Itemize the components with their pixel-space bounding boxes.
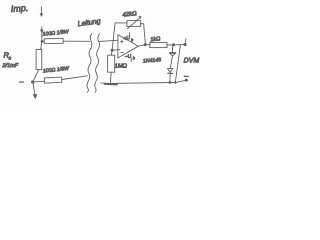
resistor R3 1kΩ [150, 43, 167, 48]
node E (diode junction) [172, 43, 175, 46]
-Ub supply stub [130, 58, 132, 62]
potentiometer wiper arrow [128, 17, 141, 28]
- terminal dot [185, 79, 188, 82]
arrowhead on input wire [40, 29, 44, 33]
ground arrow (down) [33, 82, 35, 95]
node B (bottom-left junction) [31, 80, 34, 83]
minus tick left [20, 81, 24, 83]
potentiometer P1 body [127, 21, 141, 27]
node G [174, 81, 176, 83]
op-amp U1 [118, 35, 138, 58]
node A (input junction) [41, 40, 44, 43]
wire to - input [112, 49, 120, 52]
wire bottom-left [34, 80, 45, 83]
wire cable to op-amp + input [99, 40, 118, 41]
op-amp + input mark [121, 40, 124, 43]
svg-text:1N4148: 1N4148 [143, 57, 162, 64]
+Ub supply stub [129, 33, 131, 37]
node D (output junction) [144, 43, 147, 46]
wire to cable bottom [62, 76, 88, 80]
wire op-amp output [138, 45, 145, 46]
resistor R1 100Ω 1/8W (series top) [44, 38, 63, 43]
svg-text:1kΩ: 1kΩ [150, 36, 160, 43]
node C (inverting node dot) [111, 49, 114, 52]
cable break squiggle left [87, 34, 92, 93]
wire to + terminal [167, 43, 184, 46]
svg-text:−U: −U [124, 53, 132, 60]
resistor R2 100Ω 1/8W (series bottom) [44, 77, 61, 83]
diode D2 (lower, bar below) [168, 68, 173, 72]
wire input vertical [41, 27, 43, 41]
ground bar [105, 83, 117, 86]
wire to cable top [63, 40, 90, 42]
svg-text:DVM: DVM [184, 57, 200, 64]
bottom rail wire [101, 80, 187, 83]
+ terminal dot [183, 43, 186, 46]
feedback wire from pot left [112, 23, 127, 50]
tick above + terminal [184, 39, 187, 42]
op-amp - input mark [121, 51, 124, 53]
svg-text:2/1mF: 2/1mF [2, 63, 19, 69]
cable break squiggle right [95, 34, 100, 93]
wire second branch to rail [175, 45, 180, 82]
svg-text:1MΩ: 1MΩ [115, 63, 128, 70]
resistor R4 1MΩ (vertical to ground) [110, 50, 113, 55]
pot right leg [141, 24, 146, 45]
node F (diode to rail) [169, 81, 172, 84]
wire top-left [42, 40, 44, 42]
diode D1 1N4148 (upper, bar on top) [171, 45, 174, 52]
input arrow [40, 7, 42, 15]
svg-text:Imp.: Imp. [10, 3, 28, 14]
resistor Rs (vertical left) [41, 41, 42, 49]
minus tick right [184, 75, 188, 77]
